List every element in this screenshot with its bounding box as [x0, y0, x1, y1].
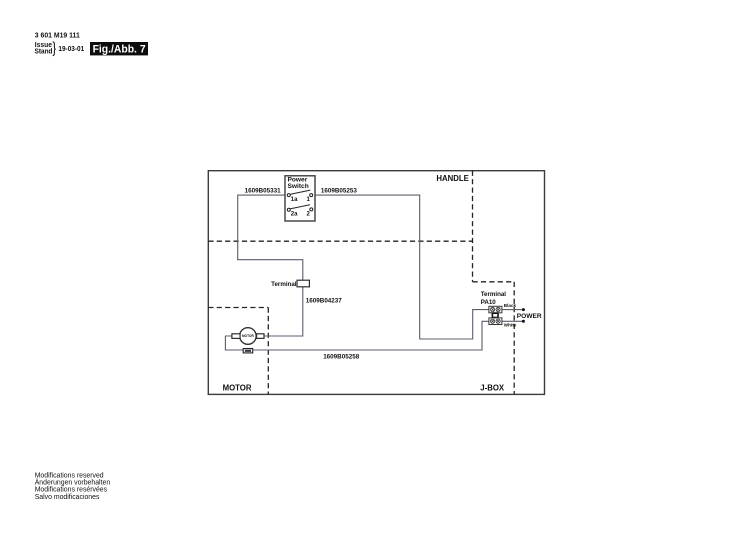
svg-text:3 601 M19 111: 3 601 M19 111 — [35, 33, 80, 40]
svg-text:Switch: Switch — [288, 183, 309, 190]
fuse on wire 1609B05258 — [243, 349, 253, 353]
svg-text:White: White — [504, 323, 517, 328]
svg-text:Terminal: Terminal — [271, 281, 297, 288]
dashed divider motor right vertical — [267, 308, 269, 395]
power node dot white — [522, 320, 525, 323]
svg-text:Fig./Abb. 7: Fig./Abb. 7 — [93, 44, 146, 56]
switch blade 1a-1 — [291, 190, 311, 194]
svg-text:J-BOX: J-BOX — [480, 383, 505, 392]
switch contact 1 — [310, 194, 313, 197]
svg-text:1609B04237: 1609B04237 — [306, 297, 342, 304]
switch blade 2a-2 — [291, 205, 311, 209]
dashed divider handle right vertical — [472, 171, 474, 282]
svg-text:MOTOR: MOTOR — [242, 334, 255, 338]
switch contact 2 — [310, 208, 313, 211]
svg-text:HANDLE: HANDLE — [436, 174, 469, 183]
svg-text:1a: 1a — [291, 197, 298, 203]
terminal PA10 white block — [489, 318, 502, 325]
wire terminal PA10 white to power dot — [502, 320, 524, 322]
svg-text:2a: 2a — [291, 211, 298, 217]
wire 1609B05331 from switch 1a to terminal — [238, 195, 303, 280]
footer notices — [35, 473, 111, 501]
switch contact 1a — [287, 194, 290, 197]
svg-text:Salvo modificaciones: Salvo modificaciones — [35, 494, 100, 501]
brace — [53, 42, 56, 56]
outer frame — [208, 171, 544, 395]
svg-text:PA10: PA10 — [481, 299, 497, 306]
svg-text:1609B05258: 1609B05258 — [323, 354, 359, 361]
dashed divider motor top — [208, 307, 268, 309]
switch contact 2a — [287, 208, 290, 211]
svg-text:1609B05253: 1609B05253 — [321, 187, 357, 194]
Fig./Abb. 7 label box — [90, 42, 148, 56]
wire 1609B05253 from switch 1 to terminal PA10 black — [313, 195, 489, 339]
power node dot black — [522, 308, 525, 311]
wire terminal PA10 black to power dot — [502, 309, 524, 311]
terminal PA10 black block — [489, 306, 502, 313]
wire terminal to motor — [264, 287, 303, 336]
svg-text:Black: Black — [504, 303, 517, 308]
svg-text:Stand: Stand — [35, 48, 53, 55]
dashed divider j-box top — [473, 281, 515, 283]
svg-text:Modifications reserved: Modifications reserved — [35, 473, 104, 480]
dashed divider j-box left vertical — [513, 282, 515, 395]
svg-text:MOTOR: MOTOR — [223, 383, 252, 392]
terminal PA10 middle connector — [492, 313, 498, 317]
svg-text:POWER: POWER — [517, 313, 542, 320]
wire 1609B05258 from motor via fuse to terminal PA10 white — [225, 321, 489, 350]
power switch — [285, 176, 315, 221]
motor M1 — [232, 328, 264, 345]
svg-text:19-03-01: 19-03-01 — [58, 46, 84, 53]
svg-text:1609B05331: 1609B05331 — [245, 187, 281, 194]
svg-text:Terminal: Terminal — [481, 291, 507, 298]
dashed divider handle bottom — [208, 240, 472, 242]
svg-text:Änderungen vorbehalten: Änderungen vorbehalten — [35, 479, 111, 487]
svg-text:Modifications resérvées: Modifications resérvées — [35, 487, 108, 494]
terminal block in handle — [271, 280, 309, 288]
